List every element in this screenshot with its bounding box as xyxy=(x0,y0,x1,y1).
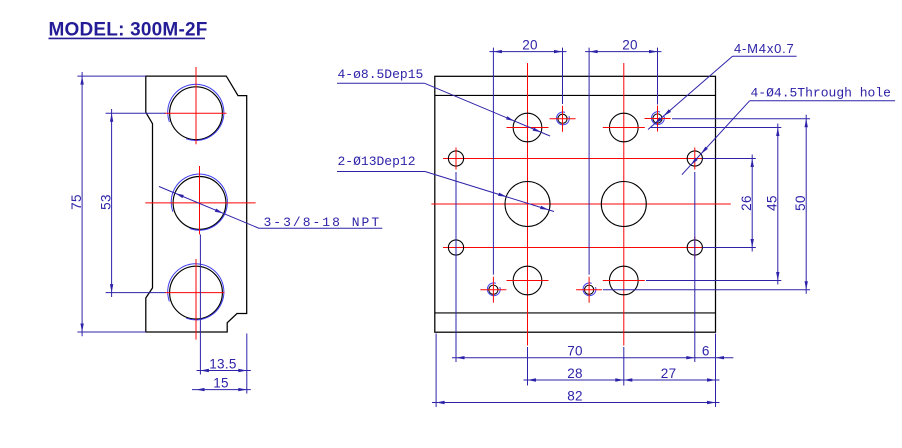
svg-text:20: 20 xyxy=(522,37,538,52)
main column center line left red xyxy=(527,63,529,346)
center lines bottom port xyxy=(165,292,225,294)
dimension 53 left xyxy=(98,109,165,297)
tapped hole M4 at 657.5,118.5 xyxy=(653,114,662,123)
label 4-dia4.5 through hole with leader xyxy=(682,86,895,175)
label 2-dia13 Dep12 with leader xyxy=(337,154,554,212)
hole 8.5 dia at 527.5,127.5 xyxy=(513,113,542,142)
NPT port hole top - blue thread arc xyxy=(168,84,224,140)
label 4-M4x0.7 with leader xyxy=(648,41,797,130)
hole 4.5 dia at 456,247.5 xyxy=(448,240,463,255)
svg-text:4-Ø4.5Through hole: 4-Ø4.5Through hole xyxy=(751,86,891,101)
svg-text:75: 75 xyxy=(69,194,84,210)
dimension 75 left xyxy=(69,72,146,336)
label 4-dia8.5 Dep15 with leader xyxy=(337,67,550,136)
svg-text:70: 70 xyxy=(567,344,583,359)
dimension 13.5 bottom left view xyxy=(197,234,251,393)
hole 4.5 dia at 456,158.5 xyxy=(448,151,463,166)
NPT port hole middle - black circle xyxy=(173,177,226,230)
hole 4.5 dia at 694.8,247.5 xyxy=(687,240,702,255)
NPT port hole top - black circle xyxy=(170,87,223,140)
hole 4.5 dia at 694.8,158.5 xyxy=(687,151,702,166)
center lines middle port xyxy=(145,202,255,204)
center lines top port xyxy=(164,112,226,114)
svg-text:27: 27 xyxy=(661,366,677,381)
svg-text:6: 6 xyxy=(702,344,710,359)
tapped hole M4 at 493.4,289.7 xyxy=(489,285,498,294)
svg-text:4-ø8.5Dep15: 4-ø8.5Dep15 xyxy=(338,67,424,82)
svg-text:2-Ø13Dep12: 2-Ø13Dep12 xyxy=(338,154,416,169)
dimension 82 bottom xyxy=(432,334,720,408)
dimension 70 bottom xyxy=(452,172,733,362)
plate top chamfer edge line xyxy=(435,94,716,96)
dimension 28 bottom xyxy=(524,347,720,386)
hole 8.5 dia at 623.8,127.5 xyxy=(609,113,638,142)
dimension 6 bottom right xyxy=(702,344,724,360)
left side view outline xyxy=(146,76,247,332)
svg-text:28: 28 xyxy=(567,366,583,381)
svg-text:82: 82 xyxy=(567,388,583,403)
NPT port hole bottom - blue thread arc xyxy=(168,264,224,320)
NPT port hole middle - blue thread arc xyxy=(171,174,227,230)
hole 8.5 dia at 527.5,280.5 xyxy=(513,266,542,295)
NPT port hole bottom - black circle xyxy=(170,266,223,319)
dimension 26 right xyxy=(703,155,756,252)
svg-text:13.5: 13.5 xyxy=(209,356,236,371)
svg-text:53: 53 xyxy=(98,194,113,210)
svg-text:20: 20 xyxy=(622,37,638,52)
dimension 15 bottom left view xyxy=(192,375,251,391)
svg-text:MODEL: 300M-2F: MODEL: 300M-2F xyxy=(49,20,208,41)
row center line upper 4.5 holes xyxy=(443,158,709,160)
front view plate outline xyxy=(435,76,716,332)
dimension 20 upper-left xyxy=(489,37,566,274)
svg-text:3-3/8-18 NPT: 3-3/8-18 NPT xyxy=(264,215,382,230)
title MODEL: 300M-2F xyxy=(49,20,208,41)
main column center line right red xyxy=(623,63,625,346)
dimension 50 right xyxy=(603,115,810,294)
row center line middle (13 holes) xyxy=(431,203,730,205)
hole 13 dia at 527.5,204 xyxy=(505,182,550,227)
tapped hole M4 at 589.1,289.7 xyxy=(585,285,594,294)
svg-text:45: 45 xyxy=(765,195,780,211)
dimension 45 right xyxy=(646,124,781,285)
tapped hole M4 at 562.5,118.8 xyxy=(558,114,567,123)
svg-text:15: 15 xyxy=(213,375,229,390)
hole 8.5 dia at 623.8,280.5 xyxy=(609,266,638,295)
dimension 27 bottom xyxy=(624,366,716,382)
leader 3-3/8-18 NPT xyxy=(159,187,382,231)
svg-text:50: 50 xyxy=(793,195,808,211)
row center line lower 4.5 holes xyxy=(443,247,709,249)
svg-text:4-M4x0.7: 4-M4x0.7 xyxy=(734,41,795,56)
hole 13 dia at 623.8,204 xyxy=(601,182,646,227)
dimension 20 upper-right xyxy=(585,37,661,274)
svg-text:26: 26 xyxy=(739,195,754,211)
plate bottom chamfer edge line xyxy=(435,312,716,314)
